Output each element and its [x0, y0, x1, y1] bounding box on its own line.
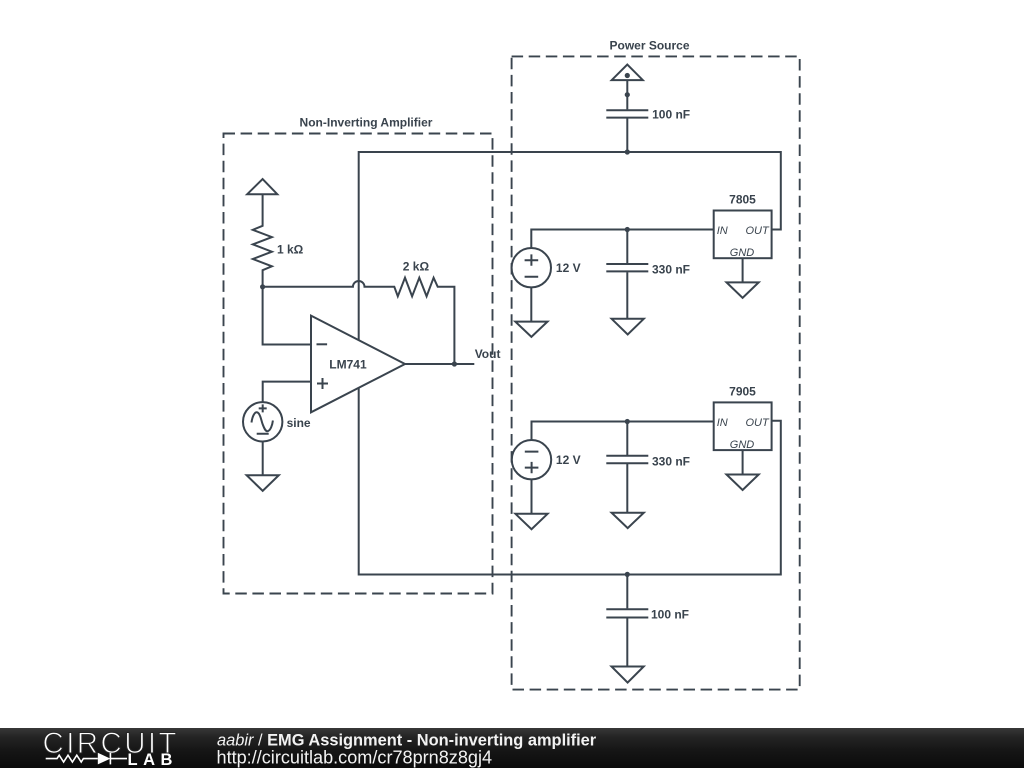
svg-text:2 kΩ: 2 kΩ [403, 260, 430, 274]
svg-text:LAB: LAB [128, 751, 178, 768]
svg-text:http://circuitlab.com/cr78prn8: http://circuitlab.com/cr78prn8z8gj4 [217, 747, 493, 767]
svg-text:12 V: 12 V [556, 453, 581, 467]
svg-text:IN: IN [717, 417, 728, 429]
svg-text:100 nF: 100 nF [652, 107, 690, 121]
svg-text:Non-Inverting Amplifier: Non-Inverting Amplifier [300, 116, 433, 130]
svg-text:Vout: Vout [475, 347, 501, 361]
svg-text:sine: sine [287, 416, 311, 430]
svg-text:GND: GND [730, 247, 755, 259]
svg-text:LM741: LM741 [329, 357, 367, 371]
svg-text:GND: GND [730, 439, 755, 451]
svg-text:100 nF: 100 nF [651, 607, 689, 621]
svg-text:1 kΩ: 1 kΩ [277, 243, 304, 257]
svg-text:7905: 7905 [729, 385, 756, 399]
svg-text:330 nF: 330 nF [652, 455, 690, 469]
svg-text:330 nF: 330 nF [652, 262, 690, 276]
svg-text:12 V: 12 V [556, 261, 581, 275]
svg-text:OUT: OUT [745, 225, 770, 237]
svg-text:7805: 7805 [729, 193, 756, 207]
svg-text:OUT: OUT [745, 417, 770, 429]
svg-text:Power Source: Power Source [609, 39, 689, 53]
svg-text:IN: IN [717, 225, 728, 237]
